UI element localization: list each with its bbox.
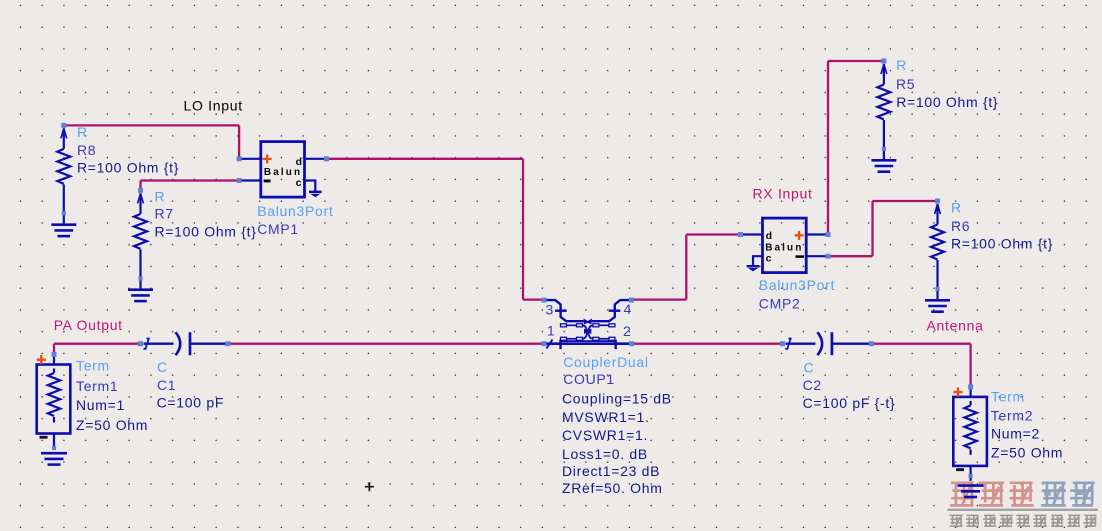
node Term1 bottom: [52, 446, 56, 450]
balun CMP1 pin d stub: [305, 158, 327, 160]
svg-text:C2: C2: [803, 377, 822, 393]
svg-text:R=100 Ohm {t}: R=100 Ohm {t}: [77, 160, 179, 176]
ground CMP1: [309, 191, 322, 198]
node R5 bottom: [882, 147, 886, 151]
minus sign CMP2: [796, 255, 805, 258]
coupler COUP1 arrows: [584, 319, 592, 335]
svg-text:R=100 Ohm {t}: R=100 Ohm {t}: [951, 236, 1053, 252]
minus sign CMP1: [264, 180, 271, 183]
node CMP1 pin2: [237, 178, 242, 183]
node Term2 top: [968, 384, 973, 389]
wire LO net: corner down to CMP1 pin1: [238, 125, 240, 158]
svg-text:Coupling=15 dB: Coupling=15 dB: [562, 391, 672, 407]
svg-text:Term: Term: [76, 357, 110, 373]
svg-text:C1: C1: [157, 377, 176, 393]
node C1 right: [225, 341, 230, 346]
svg-text:Z=50 Ohm: Z=50 Ohm: [991, 444, 1063, 460]
coupler COUP1 left tick: [559, 340, 561, 350]
balun CMP1 pin 1 stub: [239, 158, 261, 160]
svg-text:Balun3Port: Balun3Port: [759, 277, 835, 293]
watermark small characters: [949, 515, 1096, 527]
term Term2: [953, 388, 987, 498]
svg-text:R6: R6: [951, 218, 970, 234]
wire into coupler pin3: [523, 298, 544, 300]
svg-text:ZRef=50. Ohm: ZRef=50. Ohm: [562, 480, 663, 496]
svg-text:1: 1: [547, 322, 556, 338]
svg-text:R=100 Ohm {t}: R=100 Ohm {t}: [155, 224, 257, 240]
node CMP1 output: [324, 156, 329, 161]
svg-text:CouplerDual: CouplerDual: [563, 354, 649, 370]
balun CMP1 c stub: [305, 181, 316, 192]
svg-text:C: C: [804, 359, 815, 375]
svg-text:Z=50 Ohm: Z=50 Ohm: [76, 417, 148, 433]
svg-text:Num=1: Num=1: [76, 397, 125, 413]
balun CMP2 pin 1 stub: [806, 233, 828, 235]
svg-text:R: R: [896, 57, 907, 73]
ground CMP2: [747, 265, 760, 271]
svg-text:c: c: [766, 253, 772, 265]
wire CMP1 output vertical: [522, 159, 524, 300]
svg-text:Direct1=23 dB: Direct1=23 dB: [562, 463, 660, 479]
balun CMP1 pin 2 stub: [239, 179, 261, 181]
resistor R5: [871, 64, 896, 172]
svg-text:C: C: [157, 359, 168, 375]
plus sign CMP1: [263, 155, 272, 164]
resistor R7: [128, 193, 153, 301]
svg-text:R: R: [155, 188, 166, 204]
wire Term1 riser: [53, 344, 55, 355]
svg-text:CVSWR1=1.: CVSWR1=1.: [562, 427, 648, 443]
svg-text:Num=2: Num=2: [991, 426, 1040, 442]
balun CMP2 pin 2 stub: [806, 255, 828, 257]
svg-text:CMP2: CMP2: [759, 296, 801, 312]
balun CMP2 pin d stub: [741, 233, 763, 235]
svg-text:MVSWR1=1.: MVSWR1=1.: [562, 409, 650, 425]
watermark underline: [948, 509, 1099, 511]
term Term1: [37, 355, 71, 465]
node coupler pin1: [542, 341, 547, 346]
svg-text:4: 4: [624, 301, 633, 317]
wire coupler pin4 vertical up: [685, 235, 687, 300]
coupler COUP1 pin3 arm: [544, 300, 584, 321]
wire antenna drop to Term2: [969, 344, 971, 387]
svg-text:Balun3Port: Balun3Port: [257, 203, 333, 219]
svg-text:CMP1: CMP1: [257, 221, 299, 237]
resistor R6: [925, 204, 950, 312]
node R5 top: [881, 59, 886, 64]
node R7 top: [138, 188, 143, 193]
capacitor C2: [785, 332, 870, 355]
svg-text:R: R: [951, 200, 962, 216]
coupler COUP1 through line: [544, 342, 632, 345]
svg-text:C=100 pF {-t}: C=100 pF {-t}: [803, 395, 896, 411]
wire R7 to CMP1 pin2 riser: [139, 181, 141, 191]
capacitor C1: [143, 332, 228, 355]
coupler COUP1 right coupled lines: [588, 324, 615, 341]
node LO corner junction: [237, 156, 242, 161]
node Term1 top: [52, 352, 57, 357]
svg-text:COUP1: COUP1: [563, 371, 615, 387]
node CMP2 d: [738, 232, 743, 237]
plus sign CMP2: [795, 231, 804, 240]
coupler COUP1 left coupled lines: [561, 324, 588, 341]
wire rail coupler pin2 to C2: [632, 343, 783, 345]
svg-text:Term2: Term2: [991, 407, 1033, 423]
node R6 top: [935, 199, 940, 204]
wire corner up toward R6: [871, 201, 873, 256]
resistor R8: [51, 128, 76, 236]
svg-text:R: R: [77, 124, 88, 140]
wire RX net top horizontal to R5: [828, 60, 884, 62]
coupler COUP1 pin4 arm: [592, 300, 632, 321]
svg-text:R8: R8: [77, 142, 96, 158]
svg-text:c: c: [296, 177, 302, 189]
node C2 left: [780, 341, 785, 346]
node coupler pin4: [629, 298, 634, 303]
balun CMP2 box: [763, 218, 807, 273]
wire into CMP2 d pin: [686, 233, 740, 235]
svg-text:Balun: Balun: [264, 167, 302, 178]
watermark logo big characters: [950, 482, 1095, 507]
node Term2 bottom: [969, 474, 973, 478]
svg-text:d: d: [766, 230, 772, 242]
node C2 right: [869, 341, 874, 346]
node coupler pin2: [629, 341, 634, 346]
node CMP2 minus: [826, 254, 831, 259]
wire R7 to CMP1 pin2 horizontal: [141, 179, 240, 181]
wire PA rail Term1 to C1: [54, 343, 141, 345]
node C1 left: [138, 341, 143, 346]
svg-text:LO Input: LO Input: [184, 98, 243, 114]
svg-text:2: 2: [623, 323, 632, 339]
node CMP2 plus: [826, 232, 831, 237]
wire horizontal to R6 top: [873, 200, 938, 202]
node R6 bottom: [935, 287, 939, 291]
wire rail C1 to coupler pin1: [228, 343, 544, 345]
svg-text:R=100 Ohm {t}: R=100 Ohm {t}: [896, 94, 998, 110]
coupler COUP1 right tick: [615, 340, 617, 350]
balun CMP2 c stub: [753, 256, 763, 265]
node R7 bottom: [138, 276, 142, 280]
wire CMP2 minus to corner: [828, 255, 873, 257]
wire rail C2 to antenna corner: [871, 343, 970, 345]
coupler COUP1 pin1 slash: [547, 340, 553, 349]
wire RX net vertical CMP2 plus to top: [827, 61, 829, 235]
wire CMP1 output horizontal: [327, 158, 524, 160]
coupler COUP1 pin3 tick: [555, 310, 567, 312]
svg-text:d: d: [296, 156, 302, 168]
coupler COUP1 pin4 tick: [609, 310, 621, 312]
svg-text:Term: Term: [991, 389, 1025, 405]
origin cross: [365, 482, 374, 491]
svg-text:Antenna: Antenna: [927, 318, 984, 334]
wire LO net: R8 top to corner: [64, 124, 239, 126]
svg-text:R7: R7: [155, 206, 174, 222]
balun CMP1 box: [261, 142, 305, 198]
svg-text:RX Input: RX Input: [753, 185, 813, 201]
coupler COUP1 coupled through line: [561, 340, 616, 342]
node coupler pin3: [542, 298, 547, 303]
svg-text:Term1: Term1: [76, 378, 118, 394]
node R8 bottom: [62, 211, 66, 215]
wire coupler pin4 horizontal: [632, 298, 687, 300]
svg-text:C=100 pF: C=100 pF: [157, 395, 224, 411]
svg-text:R5: R5: [896, 76, 915, 92]
svg-text:PA Output: PA Output: [54, 317, 123, 333]
svg-text:Loss1=0. dB: Loss1=0. dB: [562, 446, 648, 462]
svg-text:3: 3: [546, 302, 555, 318]
node R8 top: [61, 123, 66, 128]
